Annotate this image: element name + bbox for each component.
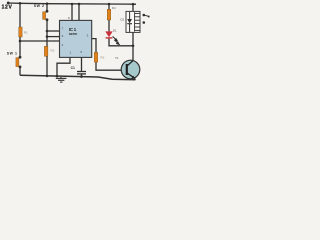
resistor R4 xyxy=(107,9,110,20)
wire pin 5 to C1 xyxy=(81,57,83,71)
node A top of R1 branch xyxy=(19,2,22,5)
wire R4 to LED xyxy=(108,20,110,31)
wire LED to node xyxy=(109,38,133,45)
wire relay branch top xyxy=(132,4,134,11)
node R2 rail junction xyxy=(46,75,49,78)
wire R3 to base xyxy=(96,62,127,70)
node LED relay collector junction xyxy=(132,45,135,48)
node pin6 junction xyxy=(46,35,49,38)
node pin4 rail xyxy=(78,3,81,6)
svg-text:T1: T1 xyxy=(115,56,119,60)
wire pin 8 to rail xyxy=(71,4,73,20)
collector xyxy=(127,61,133,67)
capacitor C1 xyxy=(77,71,86,73)
resistor R2 xyxy=(44,46,48,56)
wire pin 3 to R3 xyxy=(92,39,96,53)
svg-text:NE555: NE555 xyxy=(69,32,78,36)
transistor Q1 T1 xyxy=(121,60,140,79)
ground xyxy=(60,76,62,78)
wire pin 6 stub xyxy=(47,36,60,38)
switch SW2 xyxy=(46,10,49,13)
svg-text:R2: R2 xyxy=(50,48,54,52)
wire emitter to rail xyxy=(134,78,135,80)
node pin8 rail xyxy=(71,3,74,6)
node relay rail xyxy=(132,3,135,6)
node 12V terminal xyxy=(7,2,10,5)
resistor R3 xyxy=(94,52,97,62)
svg-text:12V: 12V xyxy=(2,4,13,10)
svg-text:D2: D2 xyxy=(120,18,124,22)
wire SW2 to R2 to rail vertical xyxy=(46,20,48,76)
svg-text:C1: C1 xyxy=(71,66,75,70)
wire ground rail bottom xyxy=(20,75,135,80)
relay coil ladder xyxy=(135,12,140,31)
switch SW1 xyxy=(19,56,22,59)
node R4 rail xyxy=(108,3,111,6)
LED arrows xyxy=(113,36,120,44)
node pin1 rail junction xyxy=(56,75,59,78)
svg-text:SW 1: SW 1 xyxy=(7,52,17,56)
wire pin 7 stub xyxy=(47,30,60,32)
wire SW2 branch vertical xyxy=(46,4,48,11)
wire pin 1 to ground xyxy=(57,57,70,76)
resistor R1 xyxy=(19,27,22,37)
node top of SW2 branch xyxy=(46,2,49,5)
svg-text:R3: R3 xyxy=(100,55,104,59)
node pin7 junction xyxy=(46,30,49,33)
LED D1 xyxy=(105,31,112,37)
wire pin 4 to rail xyxy=(78,4,80,20)
diode D2 (inside relay) xyxy=(129,12,131,19)
wire left vertical upper (12V to SW1) xyxy=(19,3,21,57)
wire C1 to rail xyxy=(81,74,83,77)
wire R4 branch xyxy=(108,4,110,9)
wire relay bottom to collector node xyxy=(132,32,134,60)
wire left vertical lower (SW1 to ground rail) xyxy=(19,67,21,75)
op-amp U1 IC1 NE555 body xyxy=(60,20,92,57)
node C1 rail junction xyxy=(80,75,83,78)
relay RL1 box xyxy=(126,11,140,32)
svg-text:R1: R1 xyxy=(24,30,28,34)
svg-text:SW 2: SW 2 xyxy=(34,4,44,8)
emitter with arrow xyxy=(127,73,135,78)
svg-text:R4: R4 xyxy=(112,6,116,10)
svg-text:D1: D1 xyxy=(113,28,117,32)
node pin2 junction xyxy=(19,40,22,43)
wire pin 2 line xyxy=(20,40,60,42)
wire top +12V rail xyxy=(8,3,136,4)
relay contact switch xyxy=(143,14,146,17)
